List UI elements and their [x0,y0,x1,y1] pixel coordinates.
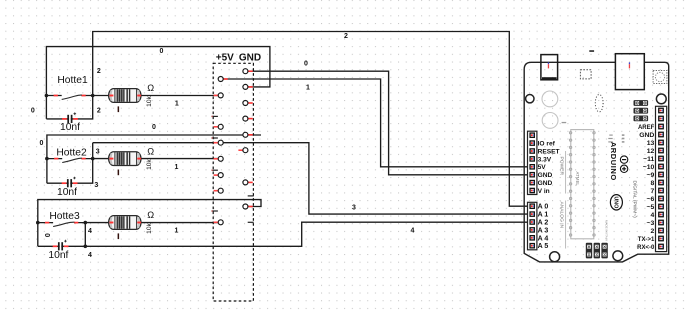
small mark above board edge [589,50,594,52]
svg-text:UNO: UNO [612,196,618,208]
wire net 0: Hotte2 left branch to GND pin row [47,135,261,183]
resistor R1 10k [31,33,669,301]
wire net 0: Hotte3 left branch to GND pin (jog) [38,200,261,247]
svg-text:3.3V: 3.3V [538,156,552,163]
connector pin GND column #6 [248,182,253,184]
svg-text:ARDUINO: ARDUINO [609,142,618,181]
Arduino power jack [541,55,558,80]
svg-text:RESET: RESET [538,148,560,155]
resistor R2 10k [31,33,669,301]
digital pin RX<-0 [658,244,664,250]
capacitor C2 10nf [62,177,78,188]
svg-text:AREF: AREF [638,125,655,131]
connector pin GND column #7 [248,206,253,208]
svg-text:2: 2 [97,108,101,115]
wire net 4: Hotte3 bottom branch to Arduino A2 [38,222,531,246]
connector pin GND column #1 [248,86,253,88]
svg-text:ANALOG IN: ANALOG IN [558,202,564,229]
connector stub tick left y=170.2 [212,169,218,171]
digital pin 4 [658,212,664,218]
svg-text:~10: ~10 [643,164,655,171]
ATMEGA chip U2 [571,130,594,239]
digital pin 12 [658,148,664,154]
svg-text:0: 0 [43,233,50,237]
mounting holes [526,95,534,103]
connector stub tick left y=211.0 [212,210,218,212]
connector pin +5V column #0 [223,78,228,80]
svg-text:POWER: POWER [558,157,564,176]
connector pin +5V column #6 [214,190,219,192]
power pin 3.3V [529,156,535,162]
svg-text:5V: 5V [538,164,547,171]
serial header (bottom) [586,243,608,259]
connector stub tick right y=222.3 [248,221,254,223]
svg-text:0: 0 [40,140,44,147]
digital pin ~10 [658,164,664,170]
svg-text:TX->1: TX->1 [638,237,655,243]
node Hotte2 left [45,157,49,161]
switch S3 (Hotte3) [38,222,86,227]
svg-text:A 5: A 5 [538,243,549,250]
tiny marks near chip top [562,122,567,123]
digital pin nc [658,116,664,122]
node Hotte3 right [84,221,88,225]
node Hotte3 left [36,221,40,225]
connector J1 dashed outline [213,63,253,301]
svg-text:0: 0 [160,48,164,55]
svg-text:MADE IN ITALY: MADE IN ITALY [605,220,609,241]
svg-text:A 3: A 3 [538,227,549,234]
digital header [656,106,667,251]
power pin nc [529,132,535,138]
svg-text:A 1: A 1 [538,212,549,219]
logo plus circle [620,165,627,172]
ICSP header (top) [634,100,649,121]
connector pin GND column #3 [248,118,253,120]
node Hotte2 right [91,157,95,161]
svg-text:0: 0 [31,108,35,115]
wire net 2: Hotte1 node to Arduino A0 [93,32,531,207]
svg-text:3: 3 [352,205,356,212]
connector pin +5V column #3 [214,142,219,144]
separator lines next to header labels [565,151,567,249]
wire net 3: Hotte2 node to Arduino A1 [93,143,531,214]
digital pin TX->1 [658,236,664,242]
svg-text:+5V: +5V [216,53,234,64]
power pin RESET [529,148,535,154]
svg-text:~5: ~5 [647,204,655,211]
svg-text:10k: 10k [146,222,153,233]
logo minus circle [620,156,627,163]
svg-text:DIGITAL (PWM~): DIGITAL (PWM~) [632,181,638,219]
connector stub tick right y=195.9 [248,195,254,197]
svg-text:Hotte1: Hotte1 [57,75,88,86]
svg-text:13: 13 [647,140,655,147]
svg-text:GND: GND [538,172,553,179]
connector pin GND column #4 [248,134,253,136]
wire net 0: GND pin to Arduino GND [248,71,531,175]
wire Hotte2 cap branch [47,143,93,184]
digital pin ~9 [658,172,664,178]
svg-text:2: 2 [651,228,655,235]
svg-text:10nf: 10nf [57,187,77,198]
connector pin +5V column #1 [214,94,219,96]
svg-text:4: 4 [411,227,415,234]
wire net 1: +5V pin to Arduino 5V [223,79,531,167]
resistor R3 10k [31,33,669,301]
analog pin A 2 [529,219,535,225]
connector pin +5V column #7 [214,221,219,223]
digital pin 2 [658,228,664,234]
svg-text:GND: GND [538,180,553,187]
node Hotte1 right [91,94,95,98]
Arduino USB connector [615,54,644,90]
connector pin GND column #0 [248,70,253,72]
dotted square with circle (top right) [653,71,667,84]
svg-text:2: 2 [97,68,101,75]
wire Hotte2 resistor row [93,158,219,160]
svg-text:10nf: 10nf [60,122,80,133]
svg-text:1: 1 [174,164,178,171]
svg-text:8: 8 [651,180,655,187]
connector stub tick left y=116.4 [212,115,218,117]
svg-text:0: 0 [304,61,308,68]
svg-text:Ω: Ω [147,210,154,220]
capacitor C1 10nf [62,112,78,123]
svg-text:4: 4 [651,212,655,219]
digital pin 7 [658,188,664,194]
switch S2 (Hotte2) [47,158,93,163]
svg-text:3: 3 [96,148,100,155]
wire Hotte3 right vertical [84,223,86,247]
svg-text:10k: 10k [146,95,153,106]
analog pin A 1 [529,211,535,217]
wire Hotte3 resistor row [85,222,218,224]
svg-text:V in: V in [538,188,550,195]
analog pin A 3 [529,227,535,233]
connector pin +5V column #5 [214,174,219,176]
digital pin ~11 [658,156,664,162]
svg-text:A 0: A 0 [538,204,549,211]
digital pin 13 [658,140,664,146]
svg-text:7: 7 [651,188,655,195]
svg-text:RX<-0: RX<-0 [637,245,655,251]
svg-text:~6: ~6 [647,196,655,203]
dotted capacitor circles [542,91,558,107]
svg-text:A 4: A 4 [538,235,549,242]
svg-text:~9: ~9 [647,172,655,179]
svg-text:ATMEL: ATMEL [575,172,580,187]
analog pin A 5 [529,243,535,249]
connector pin GND column #2 [248,102,253,104]
svg-text:4: 4 [88,228,92,235]
analog header [528,202,537,250]
node Hotte3 bottom junction [84,245,88,249]
svg-text:10nf: 10nf [48,250,68,261]
power header [528,131,537,194]
node Hotte1 left [45,94,49,98]
connector pin GND column #5 [238,149,243,151]
digital pin ~5 [658,204,664,210]
power pin 5V [529,164,535,170]
svg-text:Hotte2: Hotte2 [56,147,87,158]
svg-text:~11: ~11 [643,156,654,163]
power pin GND [529,180,535,186]
svg-text:1: 1 [175,101,179,108]
svg-text:2: 2 [344,33,348,40]
power pin IO ref [529,140,535,146]
wire Hotte1 cap branch [46,96,92,119]
led labels L TX RX [608,134,624,142]
power pin GND [529,172,535,178]
analog pin A 0 [529,203,535,209]
svg-text:4: 4 [88,252,92,259]
switch S1 (Hotte1) [46,95,92,100]
connector stub tick left y=138.0 [212,137,218,139]
digital pin GND [658,132,664,138]
svg-text:Ω: Ω [147,146,154,156]
analog pin A 4 [529,235,535,241]
svg-text:Ω: Ω [147,83,154,93]
power pin V in [529,188,535,194]
UNO logo oval [610,195,622,210]
connector pin +5V column #2 [214,126,219,128]
svg-text:3: 3 [94,182,98,189]
digital pin ~6 [658,196,664,202]
wire Hotte1 resistor row [93,95,219,97]
svg-text:GND: GND [239,53,261,64]
svg-text:Hotte3: Hotte3 [49,211,80,222]
digital pin ~3 [658,220,664,226]
digital pin AREF [658,124,664,130]
dashed component (regulator) [580,70,591,79]
svg-text:1: 1 [306,84,310,91]
svg-text:1: 1 [174,227,178,234]
svg-text:IO ref: IO ref [538,141,556,148]
svg-text:~3: ~3 [647,220,655,227]
capacitor C3 10nf [53,240,69,251]
digital pin 8 [658,180,664,186]
connector pin +5V column #4 [214,158,219,160]
digital pin nc [658,108,664,114]
svg-text:10k: 10k [146,159,153,170]
svg-text:0: 0 [152,124,156,131]
dotted crystal ellipse [595,95,603,112]
svg-text:GND: GND [639,132,654,139]
svg-text:12: 12 [647,148,655,155]
Arduino UNO U1 board outline [524,62,669,262]
wire net 0: Hotte1 left node to GND pin (via top) [46,47,270,119]
svg-text:A 2: A 2 [538,220,549,227]
